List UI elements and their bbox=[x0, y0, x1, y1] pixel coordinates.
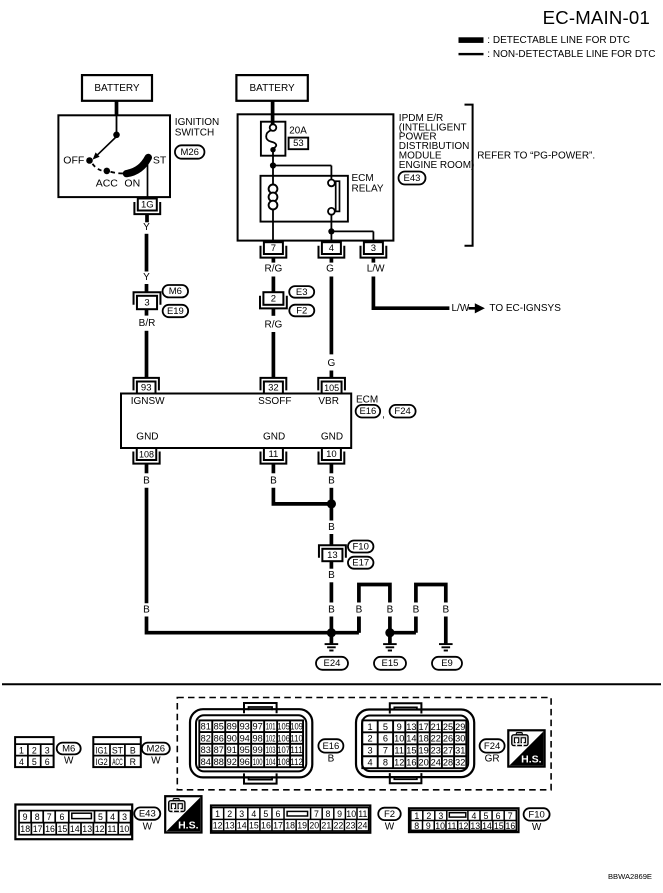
wire pin7 to connector2 bbox=[272, 277, 276, 293]
svg-text:110: 110 bbox=[290, 733, 303, 743]
svg-text:H.S.: H.S. bbox=[521, 754, 542, 766]
svg-text:BATTERY: BATTERY bbox=[94, 83, 140, 94]
svg-text:11: 11 bbox=[394, 746, 404, 756]
svg-text:10: 10 bbox=[120, 824, 130, 834]
svg-text:BATTERY: BATTERY bbox=[249, 83, 295, 94]
pin 7 bbox=[261, 242, 287, 257]
connector oval M6 bottom bbox=[57, 743, 81, 755]
svg-text:18: 18 bbox=[20, 824, 30, 834]
svg-text:G: G bbox=[326, 264, 334, 275]
wire col2 to junction bbox=[273, 488, 331, 504]
svg-text:32: 32 bbox=[455, 758, 465, 768]
connector oval E3 bbox=[289, 286, 314, 298]
wire stub below connector 2 bbox=[272, 309, 276, 316]
svg-text:89: 89 bbox=[227, 722, 237, 732]
battery B1 box bbox=[82, 75, 152, 101]
svg-text:E17: E17 bbox=[352, 558, 369, 569]
svg-text:Y: Y bbox=[143, 222, 150, 233]
connector oval E24 bbox=[316, 657, 348, 670]
svg-text:10: 10 bbox=[394, 734, 404, 744]
svg-text:9: 9 bbox=[426, 821, 431, 831]
svg-text:F2: F2 bbox=[296, 305, 307, 316]
svg-text:16: 16 bbox=[45, 824, 55, 834]
pin 11 bbox=[261, 448, 287, 464]
svg-text:23: 23 bbox=[346, 821, 356, 831]
pin 32 bbox=[261, 378, 287, 394]
svg-text:M6: M6 bbox=[169, 286, 182, 297]
svg-text:6: 6 bbox=[275, 809, 280, 819]
svg-text:111: 111 bbox=[290, 745, 303, 755]
wire coil to IPDM bottom bbox=[272, 209, 274, 240]
svg-text:5: 5 bbox=[383, 722, 388, 732]
svg-text:GND: GND bbox=[263, 432, 285, 443]
svg-text:88: 88 bbox=[214, 757, 224, 767]
svg-text:Y: Y bbox=[143, 272, 150, 283]
svg-text:27: 27 bbox=[443, 746, 453, 756]
svg-text:17: 17 bbox=[273, 821, 283, 831]
svg-text:3: 3 bbox=[144, 298, 149, 309]
svg-text:18: 18 bbox=[418, 734, 428, 744]
connector oval E16 bottom bbox=[318, 739, 343, 752]
svg-text:E3: E3 bbox=[296, 287, 308, 298]
svg-text:14: 14 bbox=[406, 734, 416, 744]
svg-text:29: 29 bbox=[455, 722, 465, 732]
contact dot OFF bbox=[86, 157, 93, 164]
svg-text:ST: ST bbox=[153, 155, 167, 167]
wire E9 down bbox=[444, 617, 448, 644]
svg-text:22: 22 bbox=[431, 734, 441, 744]
svg-text:9: 9 bbox=[23, 812, 28, 822]
wire contact to junction2 bbox=[330, 215, 332, 232]
ECM box bbox=[121, 394, 351, 449]
svg-text:30: 30 bbox=[455, 734, 465, 744]
svg-text:B: B bbox=[328, 476, 335, 487]
svg-text:23: 23 bbox=[431, 746, 441, 756]
svg-text:98: 98 bbox=[253, 733, 263, 743]
connector F2 grid bbox=[211, 806, 370, 833]
svg-text:1: 1 bbox=[367, 722, 372, 732]
svg-text:28: 28 bbox=[443, 758, 453, 768]
svg-text:GR: GR bbox=[485, 753, 500, 764]
svg-text:R/G: R/G bbox=[265, 264, 283, 275]
ground symbol E15 bbox=[383, 643, 397, 645]
connector M6 grid bbox=[15, 737, 54, 767]
bridge1 over bbox=[359, 585, 390, 633]
svg-text:19: 19 bbox=[297, 821, 307, 831]
ground symbol E9 bbox=[439, 643, 453, 645]
svg-text:108: 108 bbox=[277, 757, 290, 767]
svg-text:22: 22 bbox=[334, 821, 344, 831]
svg-text:7: 7 bbox=[47, 812, 52, 822]
svg-text:F10: F10 bbox=[353, 541, 369, 552]
legend non-detectable line for DTC bbox=[459, 53, 484, 55]
svg-text:6: 6 bbox=[60, 812, 65, 822]
svg-text:B/R: B/R bbox=[139, 318, 156, 329]
svg-text:3: 3 bbox=[122, 812, 127, 822]
wire col3 into dot E24 bbox=[330, 617, 334, 631]
inline connector 2 (E3/F2) bbox=[260, 292, 287, 308]
svg-text:1: 1 bbox=[414, 811, 419, 821]
pin 93 bbox=[134, 378, 159, 394]
svg-text:7: 7 bbox=[508, 811, 513, 821]
svg-text:F24: F24 bbox=[484, 741, 500, 752]
svg-text:13: 13 bbox=[327, 550, 338, 561]
svg-text:IG1: IG1 bbox=[96, 745, 108, 755]
svg-text:REFER TO “PG-POWER”.: REFER TO “PG-POWER”. bbox=[477, 151, 595, 162]
svg-text:B: B bbox=[442, 605, 449, 616]
svg-text:ACC: ACC bbox=[112, 757, 123, 767]
svg-text:82: 82 bbox=[201, 733, 211, 743]
wire junction to relay coil bbox=[272, 166, 274, 185]
svg-text:18: 18 bbox=[285, 821, 295, 831]
svg-text:19: 19 bbox=[418, 746, 428, 756]
wire junction2 to pin4 bbox=[330, 231, 332, 240]
connector oval F2 bottom bbox=[378, 808, 401, 820]
wire column1 to ECM pin 93 bbox=[145, 331, 149, 378]
svg-text:101: 101 bbox=[266, 722, 276, 732]
junction dot E24 bbox=[327, 628, 336, 637]
IPDM E/R box bbox=[238, 114, 394, 240]
svg-text:: NON-DETECTABLE LINE FOR DTC: : NON-DETECTABLE LINE FOR DTC bbox=[487, 49, 655, 60]
svg-text:VBR: VBR bbox=[318, 396, 339, 407]
svg-text:: DETECTABLE LINE FOR DTC: : DETECTABLE LINE FOR DTC bbox=[487, 35, 630, 46]
node ignition switch common bbox=[113, 132, 120, 139]
svg-text:15: 15 bbox=[249, 821, 259, 831]
label 53 box bbox=[289, 138, 309, 150]
battery B2 box bbox=[236, 75, 307, 101]
arrow ignition switch wiper to OFF bbox=[98, 137, 117, 155]
svg-text:1: 1 bbox=[19, 745, 24, 755]
connector oval F10 bottom bbox=[524, 808, 550, 820]
wire stub below connector 3 bbox=[145, 309, 149, 315]
svg-text:3: 3 bbox=[45, 745, 50, 755]
svg-text:10: 10 bbox=[435, 821, 445, 831]
wire stub E15 ground bbox=[388, 633, 392, 644]
svg-text:90: 90 bbox=[227, 733, 237, 743]
svg-text:4: 4 bbox=[19, 757, 24, 767]
connector oval F10 inline bbox=[348, 541, 374, 553]
wire column1 segment Y bbox=[145, 234, 149, 272]
svg-text:BBWA2869E: BBWA2869E bbox=[608, 872, 652, 881]
wire col3 lower bbox=[330, 582, 334, 602]
svg-text:B: B bbox=[413, 605, 420, 616]
svg-text:EC-MAIN-01: EC-MAIN-01 bbox=[543, 7, 650, 28]
wire E24 dot to bridge1 bbox=[331, 631, 359, 635]
svg-text:84: 84 bbox=[201, 757, 211, 767]
wire stub above pin13 bbox=[330, 534, 334, 545]
svg-text:M6: M6 bbox=[62, 743, 75, 754]
svg-text:20A: 20A bbox=[289, 125, 307, 136]
wire bridge1 left lower bbox=[357, 617, 361, 633]
svg-text:12: 12 bbox=[95, 824, 105, 834]
svg-text:11: 11 bbox=[268, 449, 278, 460]
svg-text:92: 92 bbox=[227, 757, 237, 767]
connector oval E9 bbox=[432, 657, 462, 670]
pin 108 bbox=[133, 448, 159, 464]
fuse 20A box bbox=[261, 122, 286, 156]
wire stub below pin4 bbox=[330, 258, 334, 263]
svg-text:4: 4 bbox=[251, 809, 256, 819]
svg-text:ON: ON bbox=[124, 178, 140, 190]
connector oval E43 bottom bbox=[134, 807, 160, 819]
connector oval M6 bbox=[163, 285, 189, 297]
svg-text:ACC: ACC bbox=[96, 178, 119, 190]
junction dot E15 bbox=[385, 628, 394, 637]
connector oval E15 bbox=[374, 657, 406, 670]
wire E15 dot to bridge2 bbox=[390, 631, 416, 635]
svg-text:14: 14 bbox=[70, 824, 80, 834]
contact dot ACC bbox=[104, 168, 111, 175]
svg-text:4: 4 bbox=[329, 243, 334, 254]
svg-text:53: 53 bbox=[293, 138, 304, 149]
ground symbol E24 bbox=[325, 643, 339, 645]
svg-text:20: 20 bbox=[418, 758, 428, 768]
wire stub below pin7 bbox=[272, 258, 276, 263]
wire junction to relay switch bbox=[273, 165, 331, 167]
svg-text:5: 5 bbox=[98, 812, 103, 822]
svg-text:E16: E16 bbox=[359, 406, 376, 417]
svg-text:97: 97 bbox=[253, 722, 263, 732]
connector oval F2 inline bbox=[289, 305, 314, 317]
svg-text:L/W: L/W bbox=[452, 303, 470, 314]
connector oval M26 ignition switch bbox=[175, 145, 205, 158]
svg-text:F2: F2 bbox=[384, 809, 395, 820]
svg-text:26: 26 bbox=[443, 734, 453, 744]
relay contact circles bbox=[328, 180, 335, 187]
wire battery B2 to IPDM bbox=[271, 101, 275, 124]
svg-text:105: 105 bbox=[324, 383, 339, 393]
svg-text:8: 8 bbox=[414, 821, 419, 831]
svg-text:105: 105 bbox=[277, 722, 290, 732]
svg-text:4: 4 bbox=[471, 811, 476, 821]
wire stub below pin10 bbox=[330, 464, 334, 473]
svg-text:2: 2 bbox=[367, 734, 372, 744]
svg-text:B: B bbox=[356, 605, 363, 616]
svg-text:14: 14 bbox=[482, 821, 492, 831]
wire stub above pin105 bbox=[330, 371, 334, 378]
svg-text:8: 8 bbox=[35, 812, 40, 822]
connector oval E19 bbox=[163, 305, 189, 317]
svg-text:12: 12 bbox=[213, 821, 223, 831]
svg-text:14: 14 bbox=[237, 821, 247, 831]
svg-text:13: 13 bbox=[82, 824, 92, 834]
svg-text:94: 94 bbox=[240, 733, 250, 743]
svg-text:81: 81 bbox=[201, 722, 211, 732]
svg-text:109: 109 bbox=[290, 722, 303, 732]
svg-text:M26: M26 bbox=[180, 147, 198, 158]
pin 3 bbox=[361, 242, 387, 257]
svg-text:2: 2 bbox=[32, 745, 37, 755]
svg-text:GND: GND bbox=[136, 432, 158, 443]
H.S. mark 2 bbox=[165, 796, 201, 832]
svg-text:B: B bbox=[328, 570, 335, 581]
connector oval F24 ecm bbox=[390, 405, 416, 418]
svg-text:E43: E43 bbox=[139, 809, 156, 820]
svg-text:1G: 1G bbox=[141, 200, 154, 211]
svg-text:2: 2 bbox=[227, 809, 232, 819]
wire below junction bbox=[330, 504, 334, 521]
svg-text:F24: F24 bbox=[394, 406, 410, 417]
wire pin4 down bbox=[330, 277, 334, 355]
svg-text:12: 12 bbox=[459, 821, 469, 831]
ECM relay box bbox=[261, 176, 348, 222]
svg-text:87: 87 bbox=[214, 745, 224, 755]
wire fuse to junction bbox=[272, 152, 274, 166]
svg-text:RELAY: RELAY bbox=[352, 184, 384, 195]
svg-text:3: 3 bbox=[438, 811, 443, 821]
svg-text:IGNITION: IGNITION bbox=[175, 117, 219, 128]
legend detectable line for DTC bbox=[459, 37, 484, 43]
svg-text:IG2: IG2 bbox=[96, 757, 108, 767]
svg-text:102: 102 bbox=[266, 733, 276, 743]
wire stub below pin3 bbox=[372, 258, 376, 263]
svg-text:B: B bbox=[328, 522, 335, 533]
wire col1 long down bbox=[145, 488, 149, 604]
wire col1 corner to E24 bbox=[147, 617, 332, 633]
wire stub below pin108 bbox=[145, 464, 149, 473]
svg-text:10: 10 bbox=[326, 449, 337, 460]
connector oval E16 ecm bbox=[356, 405, 381, 418]
pin 13 (F10/E17) bbox=[319, 545, 346, 561]
svg-text:93: 93 bbox=[141, 383, 152, 394]
relay contact bar bbox=[336, 181, 340, 211]
svg-text:7: 7 bbox=[383, 746, 388, 756]
svg-text:100: 100 bbox=[253, 757, 263, 767]
svg-text:R: R bbox=[130, 757, 136, 767]
svg-text:B: B bbox=[387, 605, 394, 616]
wire stub below pin13 bbox=[330, 561, 334, 569]
svg-text:11: 11 bbox=[447, 821, 456, 831]
svg-text:B: B bbox=[328, 605, 335, 616]
junction dot below fuse bbox=[270, 162, 276, 168]
svg-text:5: 5 bbox=[263, 809, 268, 819]
svg-text:ECM: ECM bbox=[352, 173, 374, 184]
svg-text:M26: M26 bbox=[147, 743, 165, 754]
svg-text:SSOFF: SSOFF bbox=[258, 396, 291, 407]
wire pin3 to EC-IGNSYS bbox=[373, 277, 449, 309]
svg-text:107: 107 bbox=[277, 745, 290, 755]
svg-text:B: B bbox=[130, 745, 136, 755]
svg-text:99: 99 bbox=[253, 745, 263, 755]
svg-text:B: B bbox=[143, 476, 150, 487]
svg-text:11: 11 bbox=[358, 809, 367, 819]
connector oval E17 bbox=[348, 557, 374, 569]
svg-text:2: 2 bbox=[271, 294, 276, 305]
connector oval E43 bbox=[399, 172, 426, 185]
svg-text:ECM: ECM bbox=[356, 394, 378, 405]
bridge2 over bbox=[416, 585, 446, 633]
junction dot grounds top bbox=[327, 499, 336, 508]
svg-text:ENGINE ROOM): ENGINE ROOM) bbox=[399, 160, 475, 171]
svg-text:24: 24 bbox=[358, 821, 368, 831]
wire stub E24 ground bbox=[330, 633, 334, 644]
svg-text:108: 108 bbox=[139, 450, 154, 460]
svg-text:7: 7 bbox=[271, 243, 276, 254]
svg-text:15: 15 bbox=[494, 821, 504, 831]
arrow to EC-IGNSYS bbox=[469, 307, 476, 310]
junction dot above pin4 bbox=[328, 228, 334, 234]
svg-text:6: 6 bbox=[45, 757, 50, 767]
svg-text:96: 96 bbox=[240, 757, 250, 767]
svg-text:G: G bbox=[328, 358, 336, 369]
svg-text:15: 15 bbox=[406, 746, 416, 756]
svg-text:10: 10 bbox=[346, 809, 356, 819]
svg-text:W: W bbox=[532, 822, 542, 833]
svg-text:W: W bbox=[64, 756, 74, 767]
wire inside ignition switch from top bbox=[116, 115, 118, 132]
svg-text:86: 86 bbox=[214, 733, 224, 743]
svg-text:6: 6 bbox=[496, 811, 501, 821]
svg-text:5: 5 bbox=[32, 757, 37, 767]
connector F24 housing+grid bbox=[356, 703, 474, 783]
wire stub above connector 3 bbox=[145, 284, 149, 292]
svg-text:21: 21 bbox=[321, 821, 331, 831]
svg-text:3: 3 bbox=[239, 809, 244, 819]
svg-text:17: 17 bbox=[33, 824, 43, 834]
dashed arc OFF-ACC-ON bbox=[93, 164, 105, 171]
relay coil bbox=[269, 185, 278, 194]
connector oval F24 bottom bbox=[480, 739, 505, 752]
svg-text:106: 106 bbox=[277, 733, 290, 743]
svg-text:E16: E16 bbox=[322, 741, 339, 752]
svg-text:93: 93 bbox=[240, 722, 250, 732]
svg-text:3: 3 bbox=[367, 746, 372, 756]
svg-text:W: W bbox=[143, 822, 153, 833]
svg-text:B: B bbox=[328, 753, 335, 764]
svg-text:12: 12 bbox=[394, 758, 404, 768]
svg-text:8: 8 bbox=[383, 758, 388, 768]
svg-text:25: 25 bbox=[443, 722, 453, 732]
svg-text:15: 15 bbox=[58, 824, 68, 834]
svg-text:21: 21 bbox=[431, 722, 441, 732]
pin 105 bbox=[318, 378, 345, 394]
svg-text:F10: F10 bbox=[528, 809, 544, 820]
svg-text:H.S.: H.S. bbox=[178, 820, 199, 832]
svg-text:112: 112 bbox=[290, 757, 303, 767]
svg-text:SWITCH: SWITCH bbox=[175, 128, 214, 139]
svg-text:4: 4 bbox=[110, 812, 115, 822]
svg-text:9: 9 bbox=[337, 809, 342, 819]
svg-text:E15: E15 bbox=[382, 658, 399, 669]
connector E16 housing+grid bbox=[190, 703, 312, 784]
svg-text:17: 17 bbox=[418, 722, 428, 732]
wire battery B1 to ignition switch bbox=[115, 101, 119, 116]
wire stub below pin11 bbox=[272, 464, 276, 473]
svg-text:2: 2 bbox=[426, 811, 431, 821]
svg-text:GND: GND bbox=[321, 432, 343, 443]
svg-text:E24: E24 bbox=[324, 658, 341, 669]
svg-text:16: 16 bbox=[406, 758, 416, 768]
fuse element bbox=[270, 124, 277, 131]
svg-text:8: 8 bbox=[326, 809, 331, 819]
svg-text:W: W bbox=[151, 756, 161, 767]
svg-text:24: 24 bbox=[431, 758, 441, 768]
wire col3 into junction bbox=[330, 488, 334, 504]
inline connector 3 (M6/E19) bbox=[134, 292, 161, 309]
connector E43 grid bbox=[15, 805, 132, 840]
svg-text:13: 13 bbox=[406, 722, 416, 732]
svg-text:7: 7 bbox=[314, 809, 319, 819]
svg-text:1: 1 bbox=[215, 809, 220, 819]
dashed harness box bbox=[177, 698, 551, 790]
connector M26 grid bbox=[93, 737, 141, 767]
svg-text:B: B bbox=[143, 605, 150, 616]
ignition switch box bbox=[58, 115, 170, 197]
svg-text:32: 32 bbox=[268, 383, 279, 394]
svg-text:E9: E9 bbox=[441, 658, 453, 669]
svg-text:3: 3 bbox=[371, 243, 376, 254]
svg-text:IGNSW: IGNSW bbox=[131, 396, 165, 407]
